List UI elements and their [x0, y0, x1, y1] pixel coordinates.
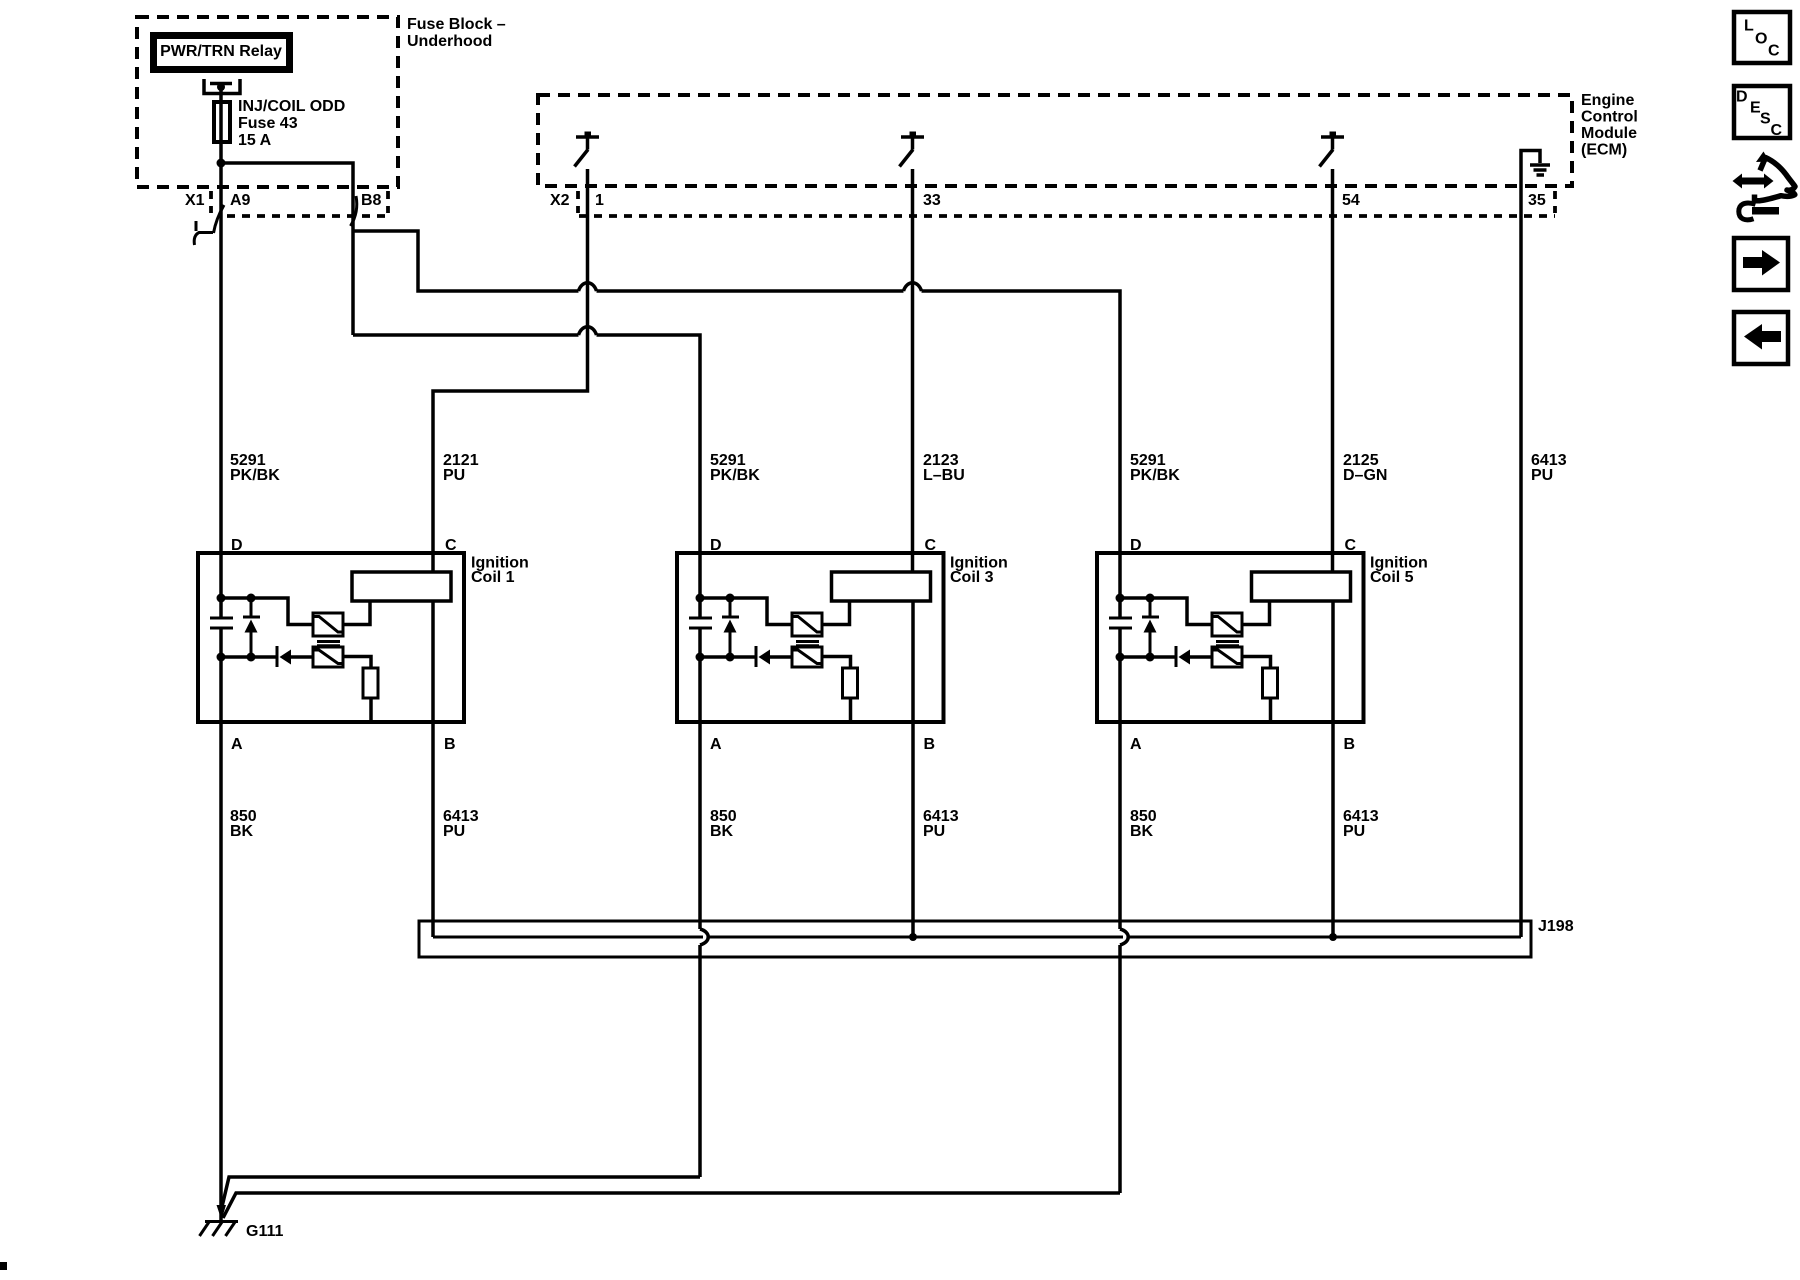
svg-text:O: O	[1755, 31, 1767, 48]
label wire 6413 PU coil1	[443, 808, 479, 840]
wire: coil5 A return to ground	[223, 1193, 1120, 1218]
hop: branch over pin 33 wire	[904, 283, 922, 291]
svg-text:33: 33	[923, 192, 941, 209]
label B8	[361, 192, 382, 209]
svg-text:A: A	[1130, 736, 1142, 753]
svg-text:15 A: 15 A	[238, 132, 272, 149]
label coil3 pin A	[710, 736, 722, 753]
coil1 resistor R1	[363, 668, 378, 698]
svg-text:INJ/COIL ODD: INJ/COIL ODD	[238, 98, 345, 115]
splice pack J198 outline	[419, 921, 1531, 957]
svg-text:D: D	[231, 537, 243, 554]
connector X1 strip dotted line	[227, 214, 388, 218]
svg-text:PK/BK: PK/BK	[710, 467, 760, 484]
coil5 resistor tail wire	[1269, 698, 1273, 722]
node coil5 diode top	[1146, 594, 1155, 603]
svg-text:PU: PU	[1531, 467, 1553, 484]
node coil1 D bottom	[217, 653, 226, 662]
coil1 zener diode D1	[243, 598, 260, 657]
icon DESC box	[1734, 86, 1790, 139]
coil5 resistor R5	[1263, 668, 1278, 698]
svg-text:Coil 5: Coil 5	[1370, 569, 1414, 586]
coil3 resistor tail wire	[849, 698, 853, 722]
ECM dashed box	[538, 95, 1572, 186]
svg-text:C: C	[1345, 537, 1357, 554]
svg-text:D: D	[710, 537, 722, 554]
svg-text:(ECM): (ECM)	[1581, 142, 1627, 159]
wire: coil1 A to ground G111 (850 BK)	[219, 628, 223, 1221]
label coil5 pin B	[1344, 736, 1356, 753]
coil3 driver stage U3b	[792, 647, 822, 667]
wire: coil3 A return to ground	[221, 1177, 700, 1211]
ignition coil 5 box	[1097, 553, 1364, 722]
coil3 resistor R3	[843, 668, 858, 698]
label wire 2123 L-BU	[923, 452, 965, 484]
connector 35 separator	[1553, 191, 1557, 213]
coil1 bottom node wire	[221, 655, 313, 659]
node coil1 diode bottom	[247, 653, 256, 662]
label A9	[230, 192, 251, 209]
svg-text:D–GN: D–GN	[1343, 467, 1387, 484]
coil3 zener diode D1	[722, 598, 739, 657]
label wire 2121 PU	[443, 452, 479, 484]
ECM driver pin 1	[575, 132, 600, 167]
svg-text:A: A	[231, 736, 243, 753]
label wire 6413 PU coil3	[923, 808, 959, 840]
scan speck bottom left	[0, 1262, 7, 1270]
wire: coil1 B to splice J198 (6413 PU)	[431, 601, 435, 937]
node coil5 D top	[1116, 594, 1125, 603]
relay K: PWR/TRN Relay box	[154, 36, 290, 70]
label wire 2125 D-GN	[1343, 452, 1387, 484]
label coil3 pin B	[924, 736, 936, 753]
coil1 resistor tail wire	[369, 698, 373, 722]
node: fuse output junction	[217, 159, 226, 168]
svg-text:B: B	[444, 736, 456, 753]
wire: B8 branch to coil 3 terminal D	[353, 335, 700, 618]
svg-text:C: C	[1768, 43, 1780, 60]
label pin 1	[595, 192, 604, 209]
coil5 capacitor C5	[1109, 618, 1132, 628]
coil5 top node wire	[1120, 598, 1212, 625]
wire: B8 branch to coil 5 terminal D	[353, 231, 1120, 618]
coil3 top node wire	[700, 598, 792, 625]
label coil1 pin D	[231, 537, 243, 554]
coil3 driver1 output wire	[822, 601, 850, 625]
coil3 isolation bars	[796, 642, 819, 646]
ground G111 symbol	[200, 1205, 239, 1236]
hop: branch over pin 1 wire	[579, 283, 597, 291]
coil5 driver stage U5b	[1212, 647, 1242, 667]
label Ignition Coil 1	[471, 555, 529, 587]
label pin 33	[923, 192, 941, 209]
node coil3 diode top	[726, 594, 735, 603]
node coil3 D top	[696, 594, 705, 603]
connector B8 separator	[386, 191, 390, 213]
svg-text:X2: X2	[550, 192, 570, 209]
icon forward arrow box	[1734, 238, 1788, 290]
node coil5 diode bottom	[1146, 653, 1155, 662]
label coil1 pin B	[444, 736, 456, 753]
svg-text:C: C	[1771, 122, 1783, 139]
label wire 850 BK coil1	[230, 808, 257, 840]
ignition coil 1 box	[198, 553, 464, 722]
svg-text:Module: Module	[1581, 125, 1637, 142]
svg-text:35: 35	[1528, 192, 1546, 209]
label wire 5291 PK/BK coil5	[1130, 452, 1180, 484]
svg-text:BK: BK	[1130, 823, 1154, 840]
coil1 capacitor C1	[210, 618, 233, 628]
svg-text:C: C	[445, 537, 457, 554]
svg-text:D: D	[1130, 537, 1142, 554]
svg-text:BK: BK	[710, 823, 734, 840]
node: coil5 B at J198	[1329, 933, 1337, 941]
svg-text:Coil 3: Coil 3	[950, 569, 994, 586]
label pin 35	[1528, 192, 1546, 209]
svg-text:L–BU: L–BU	[923, 467, 965, 484]
svg-text:D: D	[1736, 89, 1748, 106]
svg-text:G111: G111	[246, 1223, 283, 1240]
terminal at A9	[214, 205, 225, 233]
label coil5 pin D	[1130, 537, 1142, 554]
label Engine Control Module (ECM)	[1581, 92, 1638, 159]
svg-text:C: C	[925, 537, 937, 554]
svg-text:Underhood: Underhood	[407, 33, 492, 50]
svg-text:PU: PU	[443, 467, 465, 484]
coil5 isolation bars	[1216, 642, 1239, 646]
svg-text:Coil 1: Coil 1	[471, 569, 515, 586]
hop: coil3 A wire over splice bus	[700, 929, 708, 945]
hop: coil5 A wire over splice bus	[1120, 929, 1128, 945]
coil3 diode D2	[756, 646, 770, 667]
coil5 zener diode D1	[1142, 598, 1159, 657]
coil3 driver2 output wire	[822, 657, 851, 669]
svg-text:A9: A9	[230, 192, 251, 209]
label wire 850 BK coil5	[1130, 808, 1157, 840]
label Fuse Block - Underhood	[407, 16, 506, 50]
coil1 driver stage U1a	[313, 613, 343, 636]
svg-text:Control: Control	[1581, 109, 1638, 126]
label Ignition Coil 5	[1370, 555, 1428, 587]
svg-text:Fuse Block –: Fuse Block –	[407, 16, 506, 33]
wire: coil5 B to splice J198 (6413 PU)	[1331, 601, 1335, 937]
coil5 driver2 output wire	[1242, 657, 1271, 669]
fuse block underhood dashed box	[137, 17, 398, 187]
svg-text:S: S	[1760, 111, 1771, 128]
coil3 bottom node wire	[700, 655, 792, 659]
label coil3 pin D	[710, 537, 722, 554]
coil1 driver2 output wire	[343, 657, 371, 669]
ECM driver pin 54	[1320, 132, 1345, 167]
svg-text:X1: X1	[185, 192, 205, 209]
ECM internal ground at pin 35	[1521, 151, 1550, 176]
svg-text:PWR/TRN Relay: PWR/TRN Relay	[160, 43, 282, 60]
label G111	[246, 1223, 283, 1240]
svg-text:PU: PU	[1343, 823, 1365, 840]
label wire 5291 PK/BK coil3	[710, 452, 760, 484]
label wire 850 BK coil3	[710, 808, 737, 840]
label X1	[185, 192, 205, 209]
node: coil3 B at J198	[909, 933, 917, 941]
label pin 54	[1342, 192, 1360, 209]
coil1 primary winding	[352, 572, 451, 601]
connector X2 strip dotted line	[579, 214, 1555, 218]
ignition coil 3 box	[677, 553, 944, 722]
fuse F43 INJ/COIL ODD	[214, 102, 230, 142]
icon LOC box	[1734, 12, 1790, 63]
icon back arrow box	[1734, 312, 1788, 364]
label coil1 pin C	[445, 537, 457, 554]
label coil5 pin A	[1130, 736, 1142, 753]
icon wiring tool	[1733, 152, 1796, 220]
wire: coil3 A down through J198 to ground (850 BK)	[698, 628, 702, 1177]
node coil3 D bottom	[696, 653, 705, 662]
svg-text:PU: PU	[443, 823, 465, 840]
label wire 6413 PU coil5	[1343, 808, 1379, 840]
coil5 bottom node wire	[1120, 655, 1212, 659]
wire: coil3 B to splice J198 (6413 PU)	[911, 601, 915, 937]
wire: pin 1 to coil 1 terminal C (2121 PU)	[433, 169, 588, 572]
svg-text:A: A	[710, 736, 722, 753]
node coil1 D top	[217, 594, 226, 603]
wire: pin 33 to coil 3 terminal C (2123 L-BU)	[911, 169, 915, 572]
coil1 top node wire	[221, 598, 313, 625]
coil1 diode D2	[277, 646, 291, 667]
node coil5 D bottom	[1116, 653, 1125, 662]
wire: coil5 A down through J198 to ground (850 BK)	[1118, 628, 1122, 1193]
svg-text:Engine: Engine	[1581, 92, 1634, 109]
svg-text:B: B	[1344, 736, 1356, 753]
wire: pin 35 to splice J198 (6413 PU)	[1519, 155, 1523, 937]
coil3 capacitor C3	[689, 618, 712, 628]
coil3 driver stage U3a	[792, 613, 822, 636]
coil1 driver stage U1b	[313, 647, 343, 667]
coil1 driver1 output wire	[343, 601, 370, 625]
svg-text:L: L	[1744, 18, 1754, 35]
svg-text:BK: BK	[230, 823, 254, 840]
svg-text:1: 1	[595, 192, 604, 209]
label fuse 43 text	[238, 98, 345, 149]
connector X1 separator	[209, 191, 213, 213]
coil5 driver1 output wire	[1242, 601, 1270, 625]
label Ignition Coil 3	[950, 555, 1008, 587]
coil1 isolation bars	[317, 642, 340, 646]
svg-text:Fuse 43: Fuse 43	[238, 115, 298, 132]
svg-text:54: 54	[1342, 192, 1360, 209]
splice J198 internal bus	[433, 936, 1521, 939]
svg-text:J198: J198	[1538, 918, 1574, 935]
svg-text:PK/BK: PK/BK	[230, 467, 280, 484]
terminal hook X1	[194, 221, 213, 245]
node coil1 diode top	[247, 594, 256, 603]
connector X2 separator	[576, 191, 580, 213]
label wire 5291 PK/BK coil1	[230, 452, 280, 484]
ECM driver pin 33	[900, 132, 925, 167]
label coil3 pin C	[925, 537, 937, 554]
svg-text:PU: PU	[923, 823, 945, 840]
coil5 driver stage U5a	[1212, 613, 1242, 636]
label X2	[550, 192, 570, 209]
wire: relay output through fuse down (5291 feed)	[219, 83, 223, 618]
label wire 6413 PU right	[1531, 452, 1567, 484]
label coil1 pin A	[231, 736, 243, 753]
coil5 primary winding	[1252, 572, 1351, 601]
node coil3 diode bottom	[726, 653, 735, 662]
label coil5 pin C	[1345, 537, 1357, 554]
hop: branch over pin 1 wire lower	[579, 327, 597, 335]
coil5 diode D2	[1176, 646, 1190, 667]
wire: pin 54 to coil 5 terminal C (2125 D-GN)	[1331, 169, 1335, 572]
relay socket bracket	[204, 79, 240, 94]
coil3 primary winding	[832, 572, 931, 601]
label J198	[1538, 918, 1574, 935]
svg-text:B8: B8	[361, 192, 382, 209]
svg-text:B: B	[924, 736, 936, 753]
svg-text:PK/BK: PK/BK	[1130, 467, 1180, 484]
wire: junction to B8 drop	[221, 163, 353, 335]
terminal at B8	[351, 196, 357, 226]
